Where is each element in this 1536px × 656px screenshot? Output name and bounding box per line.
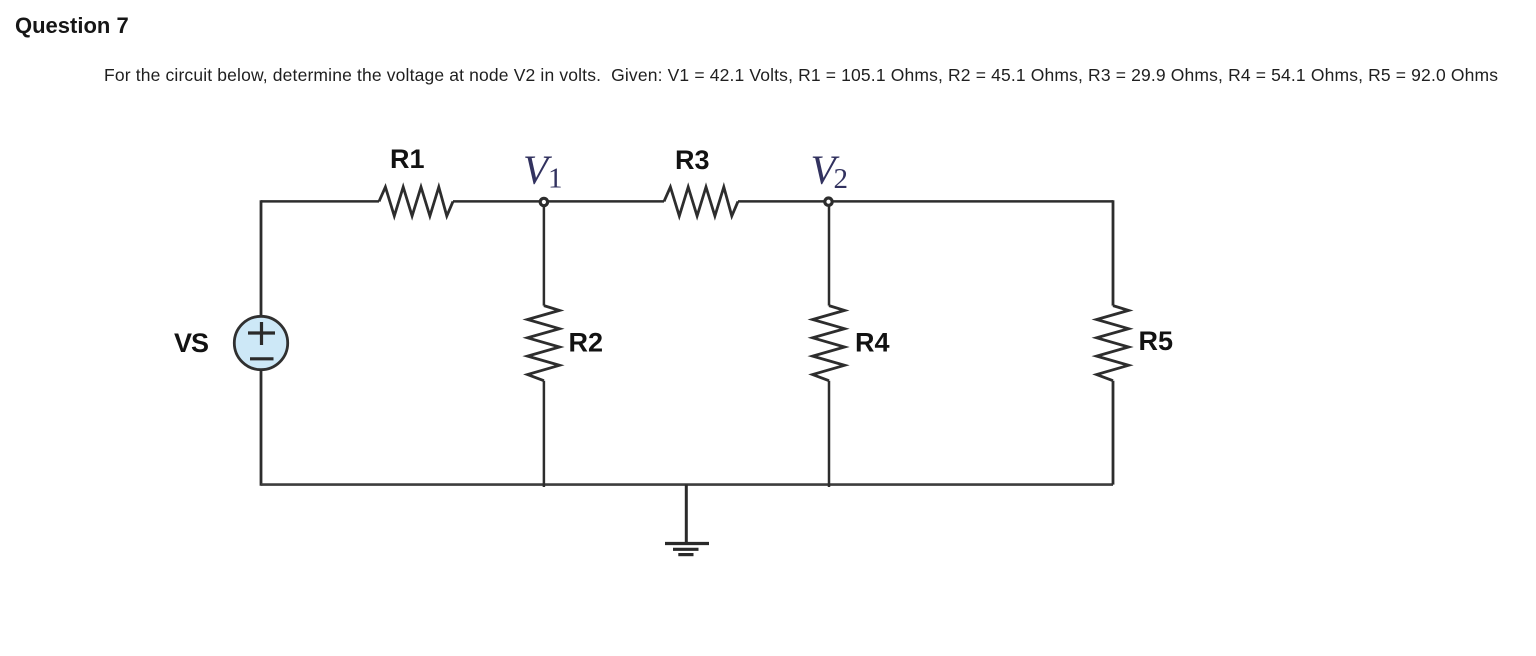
node V2: [825, 198, 832, 205]
wire: vertical segment from node V2 down to R4: [828, 202, 831, 306]
ground: [665, 544, 709, 555]
wire: vertical segment from R2 down to bottom rail: [543, 381, 546, 487]
label V2: [811, 147, 849, 196]
node V1: [540, 198, 547, 205]
svg-text:R3: R3: [675, 145, 710, 175]
wire: bottom horizontal segment (ground rail): [261, 483, 1113, 486]
wire: top-left horizontal segment from left corner to R1: [261, 200, 379, 203]
wire: top horizontal segment from R3 through node V2 to top-right corner: [738, 200, 1113, 203]
resistor R3: [664, 187, 738, 216]
svg-text:R1: R1: [390, 144, 425, 174]
resistor R5: [1097, 306, 1129, 381]
wire: left vertical segment from top-left corner down to VS: [260, 200, 263, 316]
svg-text:R4: R4: [855, 328, 890, 358]
wire: right vertical segment from top-right corner down to R5: [1112, 200, 1115, 305]
wire: top horizontal segment from R1 through node V1 to R3: [453, 200, 664, 203]
svg-text:R5: R5: [1139, 326, 1174, 356]
wire: ground stem from bottom rail: [685, 485, 688, 544]
wire: vertical segment from R4 down to bottom rail: [828, 381, 831, 487]
wire: vertical segment from R5 down to bottom-right corner: [1112, 381, 1115, 485]
voltage source VS: [234, 316, 287, 369]
resistor R1: [379, 187, 453, 216]
svg-text:1: 1: [548, 163, 563, 195]
resistor R4: [813, 306, 845, 381]
wire: left vertical segment from VS down to bottom-left corner: [260, 370, 263, 486]
svg-text:R2: R2: [569, 328, 604, 358]
label V1: [523, 147, 563, 195]
resistor R2: [528, 306, 560, 381]
svg-text:2: 2: [834, 163, 849, 195]
svg-text:VS: VS: [174, 328, 208, 358]
wire: vertical segment from node V1 down to R2: [543, 202, 546, 306]
